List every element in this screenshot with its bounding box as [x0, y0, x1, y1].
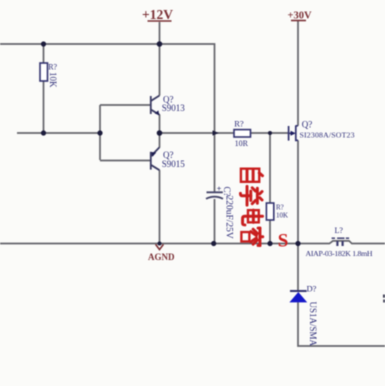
svg-text:US1A/SMA: US1A/SMA [308, 302, 318, 347]
svg-text:R?: R? [276, 204, 284, 212]
svg-text:220uF/25V: 220uF/25V [224, 196, 234, 239]
svg-text:SI2308A/SOT23: SI2308A/SOT23 [300, 130, 355, 139]
svg-text:AIAP-03-182K 1.8mH: AIAP-03-182K 1.8mH [306, 249, 373, 258]
svg-text:D?: D? [307, 283, 317, 293]
svg-text:10K: 10K [48, 72, 58, 88]
svg-text:R?: R? [234, 118, 244, 128]
svg-text:AGND: AGND [148, 252, 175, 262]
svg-text:10R: 10R [235, 139, 249, 148]
svg-text:S9015: S9015 [162, 159, 186, 169]
svg-text:R?: R? [48, 62, 57, 71]
svg-text:+30V: +30V [288, 11, 312, 22]
svg-text:10K: 10K [276, 211, 288, 219]
svg-text:S9013: S9013 [162, 103, 186, 113]
svg-text:Q?: Q? [302, 119, 313, 129]
svg-text:+12V: +12V [142, 7, 173, 22]
svg-text:S: S [278, 231, 289, 252]
svg-text:L?: L? [335, 226, 344, 235]
svg-text:+: + [217, 184, 222, 193]
